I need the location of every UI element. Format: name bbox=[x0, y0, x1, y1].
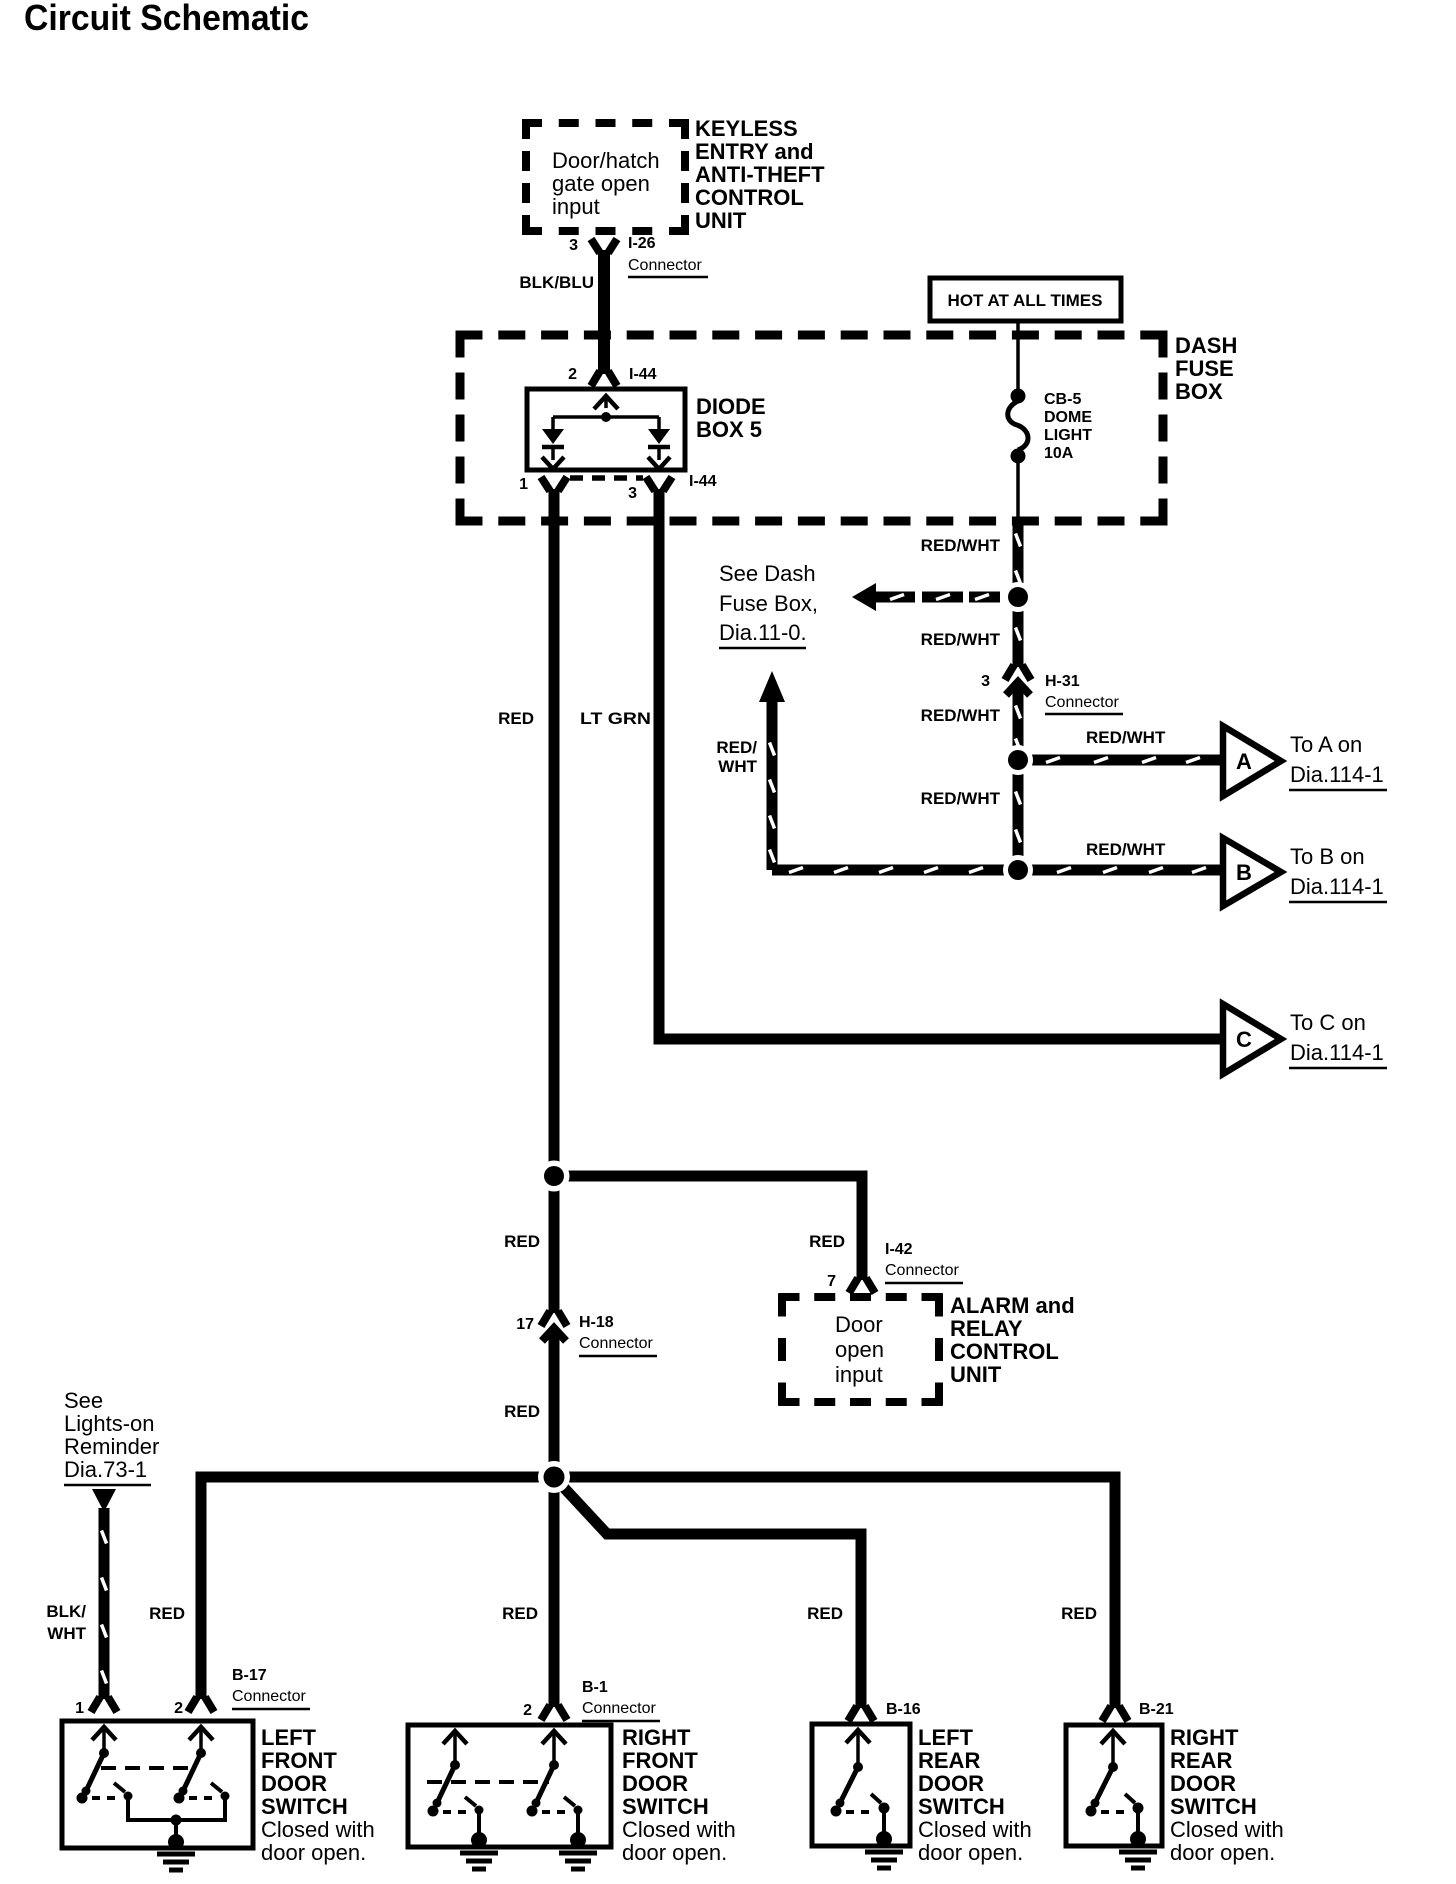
svg-text:Door/hatch: Door/hatch bbox=[552, 148, 660, 173]
wire branch to alarm unit bbox=[554, 1176, 862, 1280]
svg-text:Dia.114-1: Dia.114-1 bbox=[1290, 874, 1384, 899]
connector I-44 pins 1 and 3 bbox=[519, 473, 717, 502]
label To A on Dia.114-1 bbox=[1289, 732, 1387, 790]
svg-text:WHT: WHT bbox=[718, 757, 757, 776]
label RIGHT FRONT DOOR SWITCH bbox=[622, 1725, 736, 1865]
svg-text:DOOR: DOOR bbox=[1170, 1771, 1236, 1796]
label DASH FUSE BOX bbox=[1175, 333, 1237, 404]
wire RED below H-18 bbox=[549, 1329, 560, 1477]
label To B on Dia.114-1 bbox=[1289, 844, 1387, 902]
svg-text:gate open: gate open bbox=[552, 171, 650, 196]
svg-text:Reminder: Reminder bbox=[64, 1434, 159, 1459]
svg-text:To C on: To C on bbox=[1290, 1010, 1366, 1035]
svg-text:I-44: I-44 bbox=[629, 366, 657, 383]
svg-text:RED/WHT: RED/WHT bbox=[921, 789, 1001, 808]
labels RED and LT GRN bbox=[498, 709, 651, 728]
left front door switch box SW1 bbox=[62, 1721, 253, 1848]
svg-text:B-17: B-17 bbox=[232, 1667, 267, 1684]
svg-text:WHT: WHT bbox=[47, 1624, 86, 1643]
label To C on Dia.114-1 bbox=[1289, 1010, 1387, 1068]
right front door switch box SW2 bbox=[408, 1725, 611, 1847]
svg-text:DASH: DASH bbox=[1175, 333, 1237, 358]
white hatch marks on BLK/WHT wire bbox=[102, 1531, 107, 1684]
svg-text:BOX 5: BOX 5 bbox=[696, 417, 762, 442]
svg-text:SWITCH: SWITCH bbox=[918, 1794, 1005, 1819]
diode D2 bbox=[648, 429, 670, 469]
node SW1 common bbox=[171, 1815, 182, 1826]
diode D1 bbox=[542, 429, 564, 469]
svg-text:Connector: Connector bbox=[628, 257, 702, 274]
svg-text:RED: RED bbox=[502, 1604, 538, 1623]
svg-text:3: 3 bbox=[628, 485, 637, 502]
svg-text:3: 3 bbox=[569, 237, 578, 254]
svg-text:Circuit Schematic: Circuit Schematic bbox=[24, 0, 309, 38]
svg-text:17: 17 bbox=[516, 1316, 534, 1333]
svg-text:BLK/: BLK/ bbox=[46, 1602, 86, 1621]
svg-text:SWITCH: SWITCH bbox=[261, 1794, 348, 1819]
svg-text:B-16: B-16 bbox=[886, 1701, 921, 1718]
node junction dot 3 bbox=[1003, 855, 1033, 885]
svg-text:Connector: Connector bbox=[582, 1700, 656, 1717]
svg-text:LEFT: LEFT bbox=[261, 1725, 317, 1750]
label RED/WHT beside up arrow bbox=[716, 738, 757, 776]
svg-text:SWITCH: SWITCH bbox=[1170, 1794, 1257, 1819]
svg-text:CONTROL: CONTROL bbox=[950, 1339, 1059, 1364]
svg-text:FUSE: FUSE bbox=[1175, 356, 1234, 381]
ground SW1 bbox=[157, 1820, 195, 1870]
ground SW4 bbox=[1119, 1831, 1157, 1868]
svg-text:Dia.11-0.: Dia.11-0. bbox=[719, 620, 807, 645]
switch SW2 module 1 bbox=[428, 1731, 484, 1836]
diode box 5 bbox=[527, 389, 685, 470]
connector I-26 pin 3 bbox=[569, 235, 708, 277]
connector I-44 pin 2 bbox=[568, 366, 657, 386]
svg-text:Closed with: Closed with bbox=[1170, 1817, 1284, 1842]
label LEFT REAR DOOR SWITCH bbox=[918, 1725, 1032, 1865]
svg-text:B-21: B-21 bbox=[1139, 1701, 1174, 1718]
svg-text:RED: RED bbox=[149, 1604, 185, 1623]
svg-text:7: 7 bbox=[827, 1273, 836, 1290]
switch SW2 module 2 bbox=[527, 1731, 583, 1836]
svg-text:open: open bbox=[835, 1337, 884, 1362]
svg-text:input: input bbox=[552, 194, 600, 219]
svg-text:I-26: I-26 bbox=[628, 235, 656, 252]
wire to A bbox=[1018, 755, 1223, 766]
svg-text:Door: Door bbox=[835, 1312, 883, 1337]
connector B-21 bbox=[1102, 1701, 1174, 1721]
svg-text:RED: RED bbox=[1061, 1604, 1097, 1623]
svg-text:door open.: door open. bbox=[918, 1840, 1023, 1865]
svg-text:RIGHT: RIGHT bbox=[622, 1725, 691, 1750]
node junction dot 2 bbox=[1003, 745, 1033, 775]
svg-text:DOOR: DOOR bbox=[622, 1771, 688, 1796]
connector H-31 pin 3 bbox=[981, 665, 1123, 714]
svg-text:LEFT: LEFT bbox=[918, 1725, 974, 1750]
svg-text:Dia.73-1: Dia.73-1 bbox=[64, 1457, 147, 1482]
dash fuse box (dashed) bbox=[456, 331, 1168, 526]
right rear door switch box SW4 bbox=[1066, 1725, 1162, 1846]
label KEYLESS ENTRY and ANTI-THEFT CONTROL UNIT bbox=[695, 116, 825, 233]
svg-text:2: 2 bbox=[568, 366, 577, 383]
svg-text:REAR: REAR bbox=[918, 1748, 980, 1773]
wire dashed arrow to dash fuse box bbox=[852, 583, 1008, 611]
svg-text:B: B bbox=[1236, 860, 1252, 885]
switch SW1 module 1 bbox=[77, 1727, 177, 1820]
svg-text:DOME: DOME bbox=[1044, 409, 1092, 426]
wire horizontal distribution bbox=[201, 1477, 1115, 1708]
wire RED main vertical bbox=[549, 489, 560, 1313]
svg-text:BLK/BLU: BLK/BLU bbox=[519, 273, 594, 292]
svg-text:2: 2 bbox=[523, 1702, 532, 1719]
svg-text:To B on: To B on bbox=[1290, 844, 1365, 869]
label RIGHT REAR DOOR SWITCH bbox=[1170, 1725, 1284, 1865]
svg-text:B-1: B-1 bbox=[582, 1679, 608, 1696]
svg-text:DOOR: DOOR bbox=[918, 1771, 984, 1796]
ground SW2 module 1 bbox=[460, 1832, 498, 1869]
svg-text:3: 3 bbox=[981, 673, 990, 690]
wire LT GRN to C bbox=[659, 489, 1223, 1039]
svg-text:CONTROL: CONTROL bbox=[695, 185, 804, 210]
svg-text:H-18: H-18 bbox=[579, 1314, 614, 1331]
label See Dash Fuse Box Dia.11-0 bbox=[719, 561, 818, 648]
node B triangle bbox=[1223, 838, 1281, 906]
HOT AT ALL TIMES box bbox=[930, 278, 1121, 321]
svg-text:Fuse Box,: Fuse Box, bbox=[719, 591, 818, 616]
svg-text:I-44: I-44 bbox=[689, 473, 717, 490]
svg-text:REAR: REAR bbox=[1170, 1748, 1232, 1773]
wire BLK/WHT from lights-on reminder bbox=[92, 1489, 116, 1699]
svg-text:See: See bbox=[64, 1388, 103, 1413]
svg-text:LIGHT: LIGHT bbox=[1044, 427, 1092, 444]
wire RED/WHT up arrow bbox=[759, 671, 785, 870]
svg-text:RED: RED bbox=[809, 1232, 845, 1251]
svg-text:UNIT: UNIT bbox=[695, 208, 747, 233]
label ALARM and RELAY CONTROL UNIT bbox=[950, 1293, 1075, 1387]
circuit breaker CB-5 bbox=[1008, 389, 1093, 464]
connector B-16 bbox=[848, 1701, 921, 1721]
svg-text:10A: 10A bbox=[1044, 445, 1074, 462]
connector H-18 pin 17 bbox=[516, 1311, 657, 1356]
svg-text:DOOR: DOOR bbox=[261, 1771, 327, 1796]
svg-text:UNIT: UNIT bbox=[950, 1362, 1002, 1387]
svg-text:RED/: RED/ bbox=[716, 738, 757, 757]
svg-text:FRONT: FRONT bbox=[622, 1748, 698, 1773]
svg-text:door open.: door open. bbox=[261, 1840, 366, 1865]
wire BLK/BLU bbox=[598, 250, 610, 374]
svg-text:Closed with: Closed with bbox=[261, 1817, 375, 1842]
svg-text:Connector: Connector bbox=[1045, 694, 1119, 711]
label LEFT FRONT DOOR SWITCH bbox=[261, 1725, 375, 1865]
svg-text:ANTI-THEFT: ANTI-THEFT bbox=[695, 162, 825, 187]
node junction to alarm branch bbox=[539, 1161, 570, 1192]
svg-text:ENTRY and: ENTRY and bbox=[695, 139, 814, 164]
svg-text:Closed with: Closed with bbox=[622, 1817, 736, 1842]
node C triangle bbox=[1223, 1004, 1281, 1074]
svg-text:RED: RED bbox=[498, 709, 534, 728]
svg-text:door open.: door open. bbox=[622, 1840, 727, 1865]
svg-text:A: A bbox=[1236, 749, 1252, 774]
connector I-42 pin 7 bbox=[827, 1241, 963, 1293]
svg-text:KEYLESS: KEYLESS bbox=[695, 116, 798, 141]
node junction dot 1 bbox=[1003, 582, 1033, 612]
svg-text:CB-5: CB-5 bbox=[1044, 391, 1081, 408]
alarm and relay control unit box U2 bbox=[779, 1294, 943, 1406]
svg-text:1: 1 bbox=[519, 476, 528, 493]
svg-text:Dia.114-1: Dia.114-1 bbox=[1290, 762, 1384, 787]
svg-text:DIODE: DIODE bbox=[696, 394, 766, 419]
svg-text:RED/WHT: RED/WHT bbox=[1086, 728, 1166, 747]
svg-text:RELAY: RELAY bbox=[950, 1316, 1023, 1341]
left rear door switch box SW3 bbox=[812, 1724, 910, 1846]
wire diagonal to left rear switch bbox=[554, 1477, 861, 1708]
svg-text:Closed with: Closed with bbox=[918, 1817, 1032, 1842]
wire mechanical link SW2 bbox=[427, 1780, 549, 1784]
svg-text:door open.: door open. bbox=[1170, 1840, 1275, 1865]
svg-text:See Dash: See Dash bbox=[719, 561, 816, 586]
svg-text:H-31: H-31 bbox=[1045, 673, 1080, 690]
svg-text:C: C bbox=[1236, 1027, 1252, 1052]
wire to B bbox=[772, 865, 1223, 876]
svg-text:SWITCH: SWITCH bbox=[622, 1794, 709, 1819]
svg-text:RED/WHT: RED/WHT bbox=[1086, 840, 1166, 859]
wire mechanical link SW1 bbox=[101, 1766, 193, 1770]
svg-text:RED: RED bbox=[807, 1604, 843, 1623]
svg-text:RED: RED bbox=[504, 1232, 540, 1251]
label DIODE BOX 5 bbox=[696, 394, 766, 442]
svg-text:RED/WHT: RED/WHT bbox=[921, 536, 1001, 555]
svg-text:HOT AT ALL TIMES: HOT AT ALL TIMES bbox=[948, 291, 1103, 310]
svg-text:Connector: Connector bbox=[885, 1262, 959, 1279]
svg-text:ALARM and: ALARM and bbox=[950, 1293, 1075, 1318]
svg-text:I-42: I-42 bbox=[885, 1241, 913, 1258]
svg-text:RED/WHT: RED/WHT bbox=[921, 706, 1001, 725]
connector B-17 pins 1 and 2 bbox=[75, 1667, 310, 1717]
svg-text:BOX: BOX bbox=[1175, 379, 1223, 404]
node A triangle bbox=[1223, 726, 1281, 796]
svg-text:LT GRN: LT GRN bbox=[580, 709, 651, 728]
label See Lights-on Reminder Dia.73-1 bbox=[64, 1388, 159, 1485]
wire to right front switch bbox=[549, 1477, 560, 1707]
svg-text:To A on: To A on bbox=[1290, 732, 1362, 757]
switch SW4 bbox=[1086, 1731, 1144, 1835]
ground SW3 bbox=[865, 1831, 903, 1868]
svg-text:RIGHT: RIGHT bbox=[1170, 1725, 1239, 1750]
wire from hot feed bbox=[1016, 321, 1020, 394]
svg-text:1: 1 bbox=[75, 1700, 84, 1717]
svg-text:RED/WHT: RED/WHT bbox=[921, 630, 1001, 649]
wire RED/WHT vertical from fuse bbox=[1013, 521, 1024, 667]
svg-text:Dia.114-1: Dia.114-1 bbox=[1290, 1040, 1384, 1065]
switch SW1 module 2 bbox=[174, 1727, 230, 1820]
label BLK/WHT bbox=[46, 1602, 86, 1643]
switch SW3 bbox=[831, 1730, 890, 1835]
labels RED/WHT on vertical wire bbox=[921, 536, 1001, 808]
wire bbox=[1016, 456, 1020, 521]
white hatch marks on RED/WHT wires bbox=[770, 534, 1207, 873]
svg-text:FRONT: FRONT bbox=[261, 1748, 337, 1773]
svg-text:2: 2 bbox=[174, 1700, 183, 1717]
node main junction bbox=[538, 1461, 570, 1493]
svg-text:RED: RED bbox=[504, 1402, 540, 1421]
svg-text:Lights-on: Lights-on bbox=[64, 1411, 155, 1436]
connector B-1 pin 2 bbox=[523, 1679, 660, 1721]
svg-text:Connector: Connector bbox=[579, 1335, 653, 1352]
svg-text:Connector: Connector bbox=[232, 1688, 306, 1705]
svg-text:input: input bbox=[835, 1362, 883, 1387]
keyless entry control unit box U1 bbox=[522, 119, 689, 235]
ground SW2 module 2 bbox=[559, 1832, 597, 1869]
